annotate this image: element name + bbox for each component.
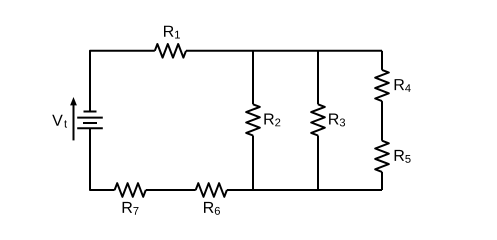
resistor R7 <box>115 183 146 197</box>
label R3 <box>329 113 345 126</box>
wire: R1 to top-right corner <box>186 50 382 52</box>
label R7 <box>123 202 139 215</box>
battery Vt short plate <box>83 122 97 124</box>
wire: R2 top lead from top bus <box>252 51 254 105</box>
wire: R7 to R6 <box>146 189 196 191</box>
wire: top-right corner to R4 <box>381 51 383 70</box>
label R2 <box>264 113 280 126</box>
wire: R5 to bottom-right corner <box>381 172 383 190</box>
resistor R6 <box>196 183 227 197</box>
battery Vt long plate <box>77 117 103 119</box>
battery Vt top short plate <box>84 111 97 113</box>
label R5 <box>395 150 411 163</box>
voltage arrow head <box>70 97 77 105</box>
wire: R4 to R5 <box>381 101 383 141</box>
battery Vt bottom long plate <box>77 127 103 129</box>
wire: R3 top lead from top bus <box>317 51 319 105</box>
voltage arrow shaft <box>73 105 75 141</box>
label R4 <box>395 79 411 92</box>
wire: R6 to bottom-right corner <box>227 189 382 191</box>
resistor R4 <box>375 70 389 101</box>
resistor R2 <box>246 104 260 135</box>
label R1 <box>164 26 180 39</box>
label R6 <box>204 202 220 215</box>
resistor R3 <box>311 104 325 135</box>
wire: battery bottom terminal down and across to R7 <box>90 128 115 190</box>
wire: R2 bottom lead to bottom bus <box>252 136 254 191</box>
wire: battery top terminal up and across to R1 <box>90 51 155 112</box>
wire: R3 bottom lead to bottom bus <box>317 136 319 191</box>
label Vt <box>52 115 67 128</box>
resistor R5 <box>375 141 389 172</box>
resistor R1 <box>155 44 186 58</box>
